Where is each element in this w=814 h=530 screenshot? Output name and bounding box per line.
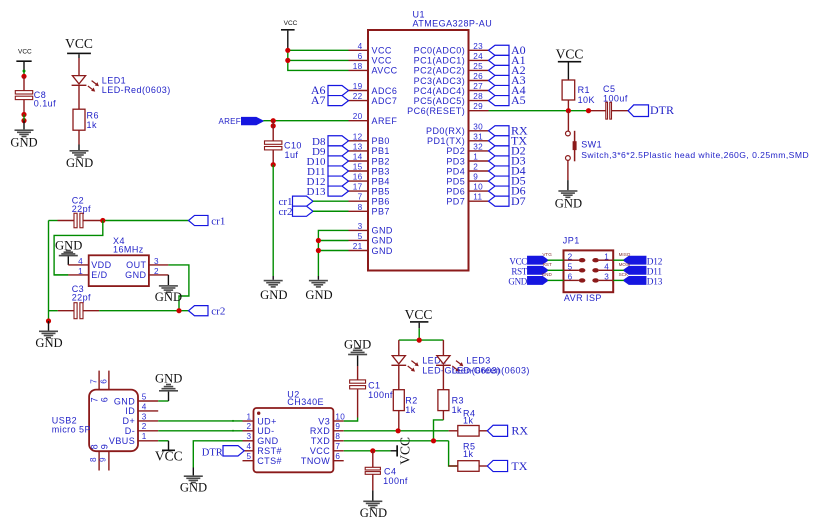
svg-text:PD6: PD6 xyxy=(446,186,465,196)
connector USB2 micro 5P xyxy=(52,371,158,471)
svg-text:VTG: VTG xyxy=(542,252,552,257)
svg-text:VCC: VCC xyxy=(405,307,433,322)
net flag D12 xyxy=(307,176,349,188)
svg-text:SCK: SCK xyxy=(619,272,629,277)
svg-text:11: 11 xyxy=(473,193,482,202)
svg-text:ADC6: ADC6 xyxy=(372,86,398,96)
svg-text:V3: V3 xyxy=(318,416,330,426)
wire xyxy=(489,110,606,112)
junction xyxy=(21,70,26,79)
svg-text:2: 2 xyxy=(473,163,478,172)
svg-text:CH340E: CH340E xyxy=(287,397,324,407)
svg-text:PC2(ADC2): PC2(ADC2) xyxy=(414,66,466,76)
svg-text:23: 23 xyxy=(473,42,483,51)
net flag D3 xyxy=(489,154,526,168)
ground GND (X4 VDD) xyxy=(55,238,82,265)
net flag A5 xyxy=(489,93,526,107)
net flag A6 xyxy=(311,83,349,97)
net flag A2 xyxy=(489,63,526,77)
svg-text:13: 13 xyxy=(353,142,363,151)
wire xyxy=(288,50,349,70)
svg-text:9: 9 xyxy=(99,457,108,462)
svg-text:5: 5 xyxy=(246,452,251,461)
net flag DTR (U2 RST#) xyxy=(202,446,244,459)
svg-text:D12: D12 xyxy=(647,257,663,267)
IC U2 CH340E xyxy=(243,389,346,472)
svg-text:PB6: PB6 xyxy=(372,197,390,207)
svg-text:VDD: VDD xyxy=(91,260,111,270)
ground GND (X4 pin2) xyxy=(155,275,182,304)
IC U1 ATMEGA328P-AU xyxy=(349,9,493,270)
svg-text:MOSI: MOSI xyxy=(619,262,631,267)
svg-text:28: 28 xyxy=(473,92,483,101)
svg-text:PB1: PB1 xyxy=(372,146,390,156)
net flag D8 xyxy=(312,136,348,148)
svg-text:LED1: LED1 xyxy=(102,76,126,86)
svg-text:RST: RST xyxy=(511,267,527,277)
junction xyxy=(566,108,591,113)
svg-text:20: 20 xyxy=(353,112,363,121)
svg-text:PB7: PB7 xyxy=(372,207,390,217)
svg-text:GND: GND xyxy=(372,236,393,246)
svg-text:8: 8 xyxy=(335,432,340,441)
wire xyxy=(613,279,624,281)
resistor R1 10K xyxy=(562,80,595,105)
svg-text:GND: GND xyxy=(10,136,37,150)
svg-text:7: 7 xyxy=(90,397,100,402)
svg-text:SW1: SW1 xyxy=(581,140,602,150)
svg-text:PC5(ADC5): PC5(ADC5) xyxy=(414,96,466,106)
svg-text:PB4: PB4 xyxy=(372,176,390,186)
svg-text:GND: GND xyxy=(125,270,146,280)
oscillator X4 16MHz xyxy=(54,236,168,286)
ground GND (crystal rail) xyxy=(35,321,62,350)
svg-text:4: 4 xyxy=(604,263,609,272)
svg-text:TXD: TXD xyxy=(311,436,330,446)
net flag RX xyxy=(489,123,529,137)
svg-text:18: 18 xyxy=(353,62,363,71)
svg-text:GND: GND xyxy=(155,290,182,304)
svg-text:17: 17 xyxy=(353,183,363,192)
svg-text:6: 6 xyxy=(100,397,110,402)
svg-text:PC6(RESET): PC6(RESET) xyxy=(407,106,465,116)
svg-text:21: 21 xyxy=(353,242,363,251)
svg-text:100nf: 100nf xyxy=(368,390,393,400)
svg-text:100uf: 100uf xyxy=(603,93,628,103)
LED LED2 LED-Green(0603) xyxy=(391,340,500,375)
svg-text:VCC: VCC xyxy=(155,448,183,463)
net flag D7 xyxy=(489,194,526,208)
svg-text:A5: A5 xyxy=(511,93,526,107)
net flag D5 xyxy=(489,174,526,188)
wire xyxy=(48,221,50,322)
svg-text:4: 4 xyxy=(246,442,251,451)
junction xyxy=(100,218,105,223)
net flag RST (JP1) xyxy=(511,262,552,276)
svg-text:GND: GND xyxy=(372,226,393,236)
capacitor C5 100uf xyxy=(603,84,628,119)
svg-text:PB2: PB2 xyxy=(372,156,390,166)
svg-text:UD+: UD+ xyxy=(257,416,277,426)
wire xyxy=(78,54,80,75)
svg-text:D13: D13 xyxy=(647,278,663,288)
svg-text:1k: 1k xyxy=(463,449,473,459)
svg-text:6: 6 xyxy=(568,273,573,282)
svg-text:R1: R1 xyxy=(578,85,590,95)
ground GND (U2) xyxy=(180,475,207,494)
power flag VCC (LED2/LED3) xyxy=(405,307,433,323)
svg-text:VCC: VCC xyxy=(310,446,330,456)
svg-text:100nf: 100nf xyxy=(383,476,408,486)
svg-text:1: 1 xyxy=(246,412,251,421)
svg-text:TNOW: TNOW xyxy=(301,456,330,466)
wire xyxy=(398,411,400,431)
resistor R6 1k xyxy=(73,109,99,130)
resistor R3 1k xyxy=(438,390,464,415)
junction xyxy=(285,48,290,63)
wire xyxy=(313,210,349,212)
svg-text:GND: GND xyxy=(542,272,553,277)
svg-text:8: 8 xyxy=(89,457,98,462)
svg-text:PD4: PD4 xyxy=(446,166,465,176)
net flag D11 (JP1) xyxy=(619,262,663,277)
svg-text:1k: 1k xyxy=(452,405,462,415)
wire xyxy=(344,430,458,432)
svg-text:C10: C10 xyxy=(284,140,302,150)
svg-text:8: 8 xyxy=(358,203,363,212)
svg-text:LED-Red(0603): LED-Red(0603) xyxy=(102,85,171,95)
svg-text:GND: GND xyxy=(180,481,207,495)
junction xyxy=(46,318,51,323)
ground GND (SW1) xyxy=(555,190,582,210)
net flag D2 xyxy=(489,144,526,158)
junction xyxy=(370,448,375,453)
junction xyxy=(271,162,276,167)
svg-text:cr1: cr1 xyxy=(211,215,225,227)
resistor R2 1k xyxy=(393,390,417,415)
svg-text:CTS#: CTS# xyxy=(257,456,282,466)
ground GND (C10) xyxy=(260,280,287,302)
junction xyxy=(417,338,422,343)
wire xyxy=(287,31,289,51)
svg-text:24: 24 xyxy=(473,52,483,61)
wire xyxy=(434,411,444,441)
svg-text:25: 25 xyxy=(473,62,483,71)
ground GND (USB shield) xyxy=(155,371,182,401)
svg-text:cr2: cr2 xyxy=(211,306,225,318)
svg-text:1: 1 xyxy=(78,267,83,276)
svg-text:ID: ID xyxy=(125,406,135,416)
svg-text:RST#: RST# xyxy=(257,446,282,456)
svg-text:31: 31 xyxy=(473,132,483,141)
svg-text:AVCC: AVCC xyxy=(372,66,398,76)
svg-text:GND: GND xyxy=(555,196,582,210)
svg-text:UD-: UD- xyxy=(257,426,274,436)
capacitor C10 1uf xyxy=(265,121,302,165)
net flag cr2 (U1 PB7) xyxy=(278,206,313,218)
svg-text:VCC: VCC xyxy=(18,49,32,56)
net flag DTR (reset) xyxy=(628,103,674,117)
svg-text:PB5: PB5 xyxy=(372,186,390,196)
svg-text:E/D: E/D xyxy=(91,270,107,280)
wire xyxy=(399,365,444,390)
junction xyxy=(431,438,436,443)
svg-text:29: 29 xyxy=(473,102,483,111)
wire xyxy=(78,130,80,150)
net flag D10 xyxy=(307,156,349,168)
svg-text:14: 14 xyxy=(353,153,363,162)
wire xyxy=(567,63,569,81)
capacitor C2 22pf xyxy=(49,196,103,228)
svg-text:GND: GND xyxy=(360,506,387,520)
svg-text:27: 27 xyxy=(473,82,483,91)
svg-text:GND: GND xyxy=(260,288,287,302)
wire xyxy=(548,269,564,271)
power flag VCC (C8 branch) xyxy=(16,49,32,63)
ground GND (C1) xyxy=(344,337,371,355)
svg-text:5: 5 xyxy=(358,232,363,241)
net flag D4 xyxy=(489,164,526,178)
wire xyxy=(99,310,188,312)
svg-text:TX: TX xyxy=(511,459,527,473)
junction xyxy=(396,428,401,433)
wire xyxy=(272,165,274,280)
svg-text:2: 2 xyxy=(246,422,251,431)
svg-text:micro 5P: micro 5P xyxy=(52,424,91,434)
svg-text:4: 4 xyxy=(142,402,147,411)
ground GND (U1) xyxy=(305,280,332,302)
svg-text:VCC: VCC xyxy=(397,437,412,465)
wire xyxy=(263,120,348,122)
LED LED3 LED-Green(0603) xyxy=(436,340,530,375)
svg-text:1: 1 xyxy=(473,153,478,162)
svg-text:26: 26 xyxy=(473,72,483,81)
svg-text:GND: GND xyxy=(372,246,393,256)
net flag D9 xyxy=(312,146,348,158)
svg-text:PD1(TX): PD1(TX) xyxy=(427,136,465,146)
svg-text:PC0(ADC0): PC0(ADC0) xyxy=(414,46,466,56)
capacitor C1 100nf xyxy=(350,355,393,400)
net flag A1 xyxy=(489,53,526,67)
svg-text:AVR ISP: AVR ISP xyxy=(564,293,602,303)
net flag TX xyxy=(489,133,528,147)
net flag A3 xyxy=(489,73,526,87)
wire xyxy=(613,259,624,261)
power flag VCC (R1) xyxy=(556,46,584,62)
svg-text:LED3: LED3 xyxy=(466,356,490,366)
svg-text:PD5: PD5 xyxy=(446,176,465,186)
svg-text:VCC: VCC xyxy=(556,46,584,61)
svg-text:PD2: PD2 xyxy=(446,146,465,156)
net flag TX xyxy=(487,459,527,473)
ground GND (C4) xyxy=(360,501,387,521)
resistor R4 1k xyxy=(458,409,488,437)
svg-text:JP1: JP1 xyxy=(563,235,580,245)
wire xyxy=(23,62,25,76)
wire xyxy=(567,161,569,191)
svg-text:3: 3 xyxy=(358,222,363,231)
svg-text:cr2: cr2 xyxy=(278,206,292,218)
net flag D6 xyxy=(489,184,526,198)
svg-text:1k: 1k xyxy=(87,120,97,130)
svg-text:22pf: 22pf xyxy=(72,292,91,302)
svg-text:6: 6 xyxy=(99,379,108,384)
svg-text:PB0: PB0 xyxy=(372,136,390,146)
power flag VCC (U1 supply) xyxy=(281,20,298,31)
wire xyxy=(344,450,397,452)
capacitor C3 22pf xyxy=(49,284,100,319)
svg-text:PB3: PB3 xyxy=(372,166,390,176)
svg-text:22pf: 22pf xyxy=(72,204,91,214)
net flag RX xyxy=(487,424,528,438)
junction xyxy=(21,112,26,123)
svg-text:7: 7 xyxy=(90,379,99,384)
connector JP1 AVR ISP xyxy=(563,235,613,302)
svg-text:Switch,3*6*2.5Plastic head whi: Switch,3*6*2.5Plastic head white,260G, 0… xyxy=(581,150,809,160)
power flag VCC (U2) xyxy=(396,437,412,465)
svg-text:15: 15 xyxy=(353,163,363,172)
svg-text:0.1uf: 0.1uf xyxy=(34,99,56,109)
svg-text:1k: 1k xyxy=(405,405,415,415)
svg-text:GND: GND xyxy=(508,277,527,287)
svg-text:A7: A7 xyxy=(311,93,326,107)
svg-text:3: 3 xyxy=(604,273,609,282)
net flag GND (JP1) xyxy=(508,272,552,286)
wire xyxy=(318,230,348,279)
power flag VCC (VBUS) xyxy=(155,441,183,464)
net flag cr1 (U1 PB6) xyxy=(278,196,313,208)
svg-text:AREF: AREF xyxy=(218,117,241,126)
net flag D12 (JP1) xyxy=(619,252,663,267)
svg-text:GND: GND xyxy=(155,371,182,385)
svg-text:OUT: OUT xyxy=(126,260,146,270)
switch SW1 xyxy=(566,111,810,162)
net flag D13 (JP1) xyxy=(619,272,663,287)
LED LED1 LED-Red(0603) xyxy=(72,76,171,96)
svg-text:16MHz: 16MHz xyxy=(113,245,144,255)
svg-text:AREF: AREF xyxy=(372,116,398,126)
svg-text:3: 3 xyxy=(246,432,251,441)
wire xyxy=(78,85,80,109)
svg-text:2: 2 xyxy=(568,252,573,261)
svg-text:GND: GND xyxy=(344,337,371,351)
svg-text:1uf: 1uf xyxy=(285,150,299,160)
svg-text:30: 30 xyxy=(473,122,483,131)
svg-text:8: 8 xyxy=(90,444,100,449)
svg-text:10K: 10K xyxy=(578,95,595,105)
net flag A7 xyxy=(311,93,349,107)
svg-text:PD0(RX): PD0(RX) xyxy=(426,126,465,136)
svg-text:MISO: MISO xyxy=(619,252,631,257)
wire xyxy=(168,265,189,311)
svg-text:1: 1 xyxy=(604,252,609,261)
svg-text:VCC: VCC xyxy=(509,256,527,266)
net flag AREF xyxy=(218,117,263,126)
net flag cr2 (crystal) xyxy=(189,306,226,318)
svg-text:7: 7 xyxy=(358,193,363,202)
net flag A4 xyxy=(489,83,526,97)
wire xyxy=(567,100,569,111)
svg-text:9: 9 xyxy=(335,422,340,431)
wire xyxy=(54,221,103,275)
svg-text:D13: D13 xyxy=(307,186,326,198)
svg-text:6: 6 xyxy=(358,52,363,61)
svg-text:3: 3 xyxy=(154,257,159,266)
svg-text:VCC: VCC xyxy=(372,46,392,56)
svg-text:GND: GND xyxy=(35,336,62,350)
svg-text:PC4(ADC4): PC4(ADC4) xyxy=(414,86,466,96)
svg-text:5: 5 xyxy=(568,263,573,272)
svg-text:5: 5 xyxy=(142,392,147,401)
svg-text:12: 12 xyxy=(353,132,363,141)
junction xyxy=(316,238,321,253)
svg-text:1k: 1k xyxy=(463,416,473,426)
svg-text:22: 22 xyxy=(353,92,363,101)
svg-text:32: 32 xyxy=(473,142,483,151)
wire xyxy=(313,200,349,202)
svg-text:VCC: VCC xyxy=(284,20,298,27)
wire xyxy=(613,269,624,271)
svg-text:GND: GND xyxy=(257,436,278,446)
power flag VCC (LED1) xyxy=(65,36,93,54)
svg-text:ADC7: ADC7 xyxy=(372,96,398,106)
capacitor C8 0.1uf xyxy=(15,76,56,114)
svg-text:RXD: RXD xyxy=(310,426,330,436)
wire xyxy=(193,441,242,476)
svg-text:1: 1 xyxy=(142,432,147,441)
resistor R5 1k xyxy=(458,441,488,471)
svg-text:D-: D- xyxy=(125,426,135,436)
svg-text:C4: C4 xyxy=(384,466,396,476)
svg-text:PD7: PD7 xyxy=(446,197,465,207)
capacitor C4 100nf xyxy=(365,451,408,501)
svg-text:10: 10 xyxy=(473,183,483,192)
ground GND (R6) xyxy=(66,150,93,170)
svg-text:RST: RST xyxy=(543,262,552,267)
svg-text:10: 10 xyxy=(335,412,345,421)
wire xyxy=(344,441,458,466)
junction xyxy=(271,118,276,128)
svg-text:ATMEGA328P-AU: ATMEGA328P-AU xyxy=(413,19,493,29)
net flag D11 xyxy=(307,166,349,178)
svg-text:4: 4 xyxy=(358,42,363,51)
svg-text:19: 19 xyxy=(353,82,363,91)
junction xyxy=(176,308,181,313)
wire xyxy=(548,279,564,281)
wire xyxy=(158,420,242,432)
svg-text:2: 2 xyxy=(142,422,147,431)
svg-text:6: 6 xyxy=(335,452,340,461)
svg-text:D+: D+ xyxy=(123,416,136,426)
svg-text:16: 16 xyxy=(353,173,363,182)
net flag A0 xyxy=(489,43,526,57)
svg-text:D7: D7 xyxy=(511,194,526,208)
svg-text:7: 7 xyxy=(335,442,340,451)
ground GND (C8) xyxy=(10,115,37,150)
svg-text:GND: GND xyxy=(66,156,93,170)
wire xyxy=(612,110,629,112)
svg-text:VBUS: VBUS xyxy=(109,436,135,446)
svg-text:PC3(ADC3): PC3(ADC3) xyxy=(414,76,466,86)
wire xyxy=(399,323,444,340)
svg-text:3: 3 xyxy=(142,412,147,421)
svg-text:DTR: DTR xyxy=(202,448,223,459)
svg-text:LED-Green(0603): LED-Green(0603) xyxy=(452,365,530,375)
wire xyxy=(548,259,564,261)
wire xyxy=(103,220,189,222)
svg-text:VCC: VCC xyxy=(372,56,392,66)
svg-text:DTR: DTR xyxy=(650,103,674,117)
